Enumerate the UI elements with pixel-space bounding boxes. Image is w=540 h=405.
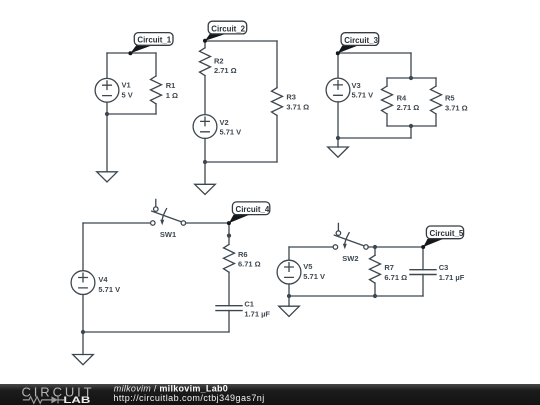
svg-text:V5: V5: [303, 262, 312, 271]
resistor R7: [370, 255, 381, 283]
wire circuit5 top left: [289, 246, 333, 248]
node parallel top junction: [409, 76, 413, 80]
node Circuit_4 flag: [227, 215, 250, 226]
resistor R1: [151, 76, 162, 104]
label R2 value: [214, 56, 237, 75]
label C3 value: [439, 263, 465, 282]
label Circuit_1: [134, 33, 173, 46]
voltage source V4: [71, 271, 95, 295]
resistor R5: [431, 86, 442, 114]
label R7 value: [384, 263, 407, 282]
wire V4 bottom lead: [82, 295, 84, 333]
wire parallel bottom: [387, 125, 436, 127]
svg-text:R2: R2: [214, 56, 224, 65]
wire circuit3 ground stub: [337, 138, 339, 147]
node circuit5 bottom junction: [287, 294, 291, 298]
wire circuit3 bottom: [338, 137, 411, 139]
resistor R4: [382, 86, 393, 114]
wire R7 top lead: [374, 247, 376, 255]
wire circuit4 bottom: [83, 331, 229, 333]
svg-text:LAB: LAB: [63, 395, 90, 405]
node circuit1 bottom junction: [105, 112, 109, 116]
ground GND3: [328, 147, 349, 157]
label V4 value: [98, 275, 120, 294]
wire V3 bottom lead: [337, 102, 339, 138]
svg-text:R6: R6: [238, 250, 248, 259]
wire circuit2 ground stub: [204, 162, 206, 184]
svg-text:Circuit_3: Circuit_3: [344, 36, 378, 45]
resistor R2: [200, 48, 211, 76]
svg-text:R7: R7: [384, 263, 394, 272]
ground GND4: [73, 355, 94, 365]
label Circuit_5: [426, 226, 463, 239]
svg-text:5.71 V: 5.71 V: [98, 285, 120, 294]
wire R3 bottom lead: [276, 116, 278, 163]
node Circuit_5 flag: [421, 239, 443, 249]
voltage source V1: [95, 78, 119, 102]
wire circuit4 top left: [83, 222, 151, 224]
label V1 value: [122, 80, 133, 99]
wire V3 top lead: [337, 53, 339, 78]
wire R4 top lead: [386, 78, 388, 86]
svg-text:V1: V1: [122, 80, 131, 89]
wire capacitor C3 top lead: [422, 247, 424, 270]
node circuit2 bottom junction: [203, 160, 207, 164]
svg-text:R4: R4: [397, 93, 407, 102]
wire V5 bottom lead: [288, 284, 290, 296]
wire circuit2 top: [205, 40, 277, 42]
label R5 value: [445, 94, 468, 113]
node Circuit_2 flag: [203, 34, 226, 43]
wire R6 to capacitor C1: [228, 272, 230, 305]
wire capacitor C3 bottom lead: [422, 274, 424, 296]
svg-text:3.71 Ω: 3.71 Ω: [445, 103, 468, 112]
node R7 top junction: [373, 245, 377, 249]
node circuit3 bottom junction: [336, 136, 340, 140]
svg-text:5.71 V: 5.71 V: [352, 91, 374, 100]
node R6 top: [227, 234, 231, 238]
logo resistor-diode line: [23, 396, 64, 403]
node Circuit_1 flag: [128, 45, 152, 55]
wire R7 bottom lead: [374, 283, 376, 296]
svg-text:Circuit_2: Circuit_2: [211, 24, 245, 33]
svg-text:3.71 Ω: 3.71 Ω: [286, 103, 309, 112]
wire circuit3 top: [338, 52, 411, 54]
voltage source V5: [277, 260, 301, 284]
wire circuit1 top: [107, 52, 156, 54]
svg-text:milkovim / milkovim_Lab0: milkovim / milkovim_Lab0: [114, 384, 228, 394]
svg-text:1.71 µF: 1.71 µF: [244, 310, 270, 319]
svg-text:V3: V3: [352, 81, 361, 90]
node parallel bottom junction: [409, 124, 413, 128]
svg-text:Circuit_5: Circuit_5: [430, 229, 464, 238]
wire V2 bottom lead: [204, 138, 206, 162]
svg-text:SW1: SW1: [160, 230, 176, 239]
footer bar: [0, 384, 540, 405]
capacitor C3: [410, 270, 436, 275]
wire circuit2 bottom: [205, 161, 277, 163]
svg-text:R3: R3: [286, 93, 296, 102]
voltage source V2: [193, 115, 217, 139]
label R4 value: [397, 93, 420, 112]
node R7 bottom junction: [373, 294, 377, 298]
wire circuit4 ground stub: [82, 332, 84, 355]
svg-text:R5: R5: [445, 94, 455, 103]
wire parallel top: [387, 77, 436, 79]
ground GND2: [195, 184, 216, 194]
resistor R6: [224, 244, 235, 272]
svg-text:6.71 Ω: 6.71 Ω: [238, 260, 261, 269]
voltage source V3: [326, 78, 350, 102]
ground GND5: [279, 306, 300, 316]
wire node to R6: [228, 223, 230, 244]
svg-text:5 V: 5 V: [122, 90, 133, 99]
label R1 value: [166, 81, 178, 100]
wire V1 top lead: [106, 53, 108, 78]
svg-text:5.71 V: 5.71 V: [220, 128, 242, 137]
capacitor C1: [216, 306, 242, 311]
label Circuit_2: [208, 21, 247, 34]
svg-text:6.71 Ω: 6.71 Ω: [384, 273, 407, 282]
wire V5 top lead: [288, 247, 290, 260]
wire R3 top lead: [276, 41, 278, 88]
wire V1 bottom lead: [106, 102, 108, 114]
wire R1 bottom lead: [155, 104, 157, 114]
svg-text:http://circuitlab.com/ctbj349g: http://circuitlab.com/ctbj349gas7nj: [113, 393, 264, 403]
label Circuit_4: [232, 202, 269, 215]
resistor R3: [272, 88, 283, 116]
label V5 value: [303, 262, 325, 281]
switch SW2: [333, 223, 368, 249]
wire circuit5 bottom: [289, 295, 423, 297]
wire R2 top lead: [204, 41, 206, 48]
svg-text:SW2: SW2: [342, 254, 358, 263]
svg-text:V2: V2: [220, 118, 229, 127]
svg-text:5.71 V: 5.71 V: [303, 272, 325, 281]
node circuit4 bottom junction: [81, 330, 85, 334]
svg-text:V4: V4: [98, 275, 108, 284]
wire R5 top lead: [435, 78, 437, 86]
label C1 value: [244, 300, 270, 319]
svg-text:C3: C3: [439, 263, 449, 272]
svg-text:2.71 Ω: 2.71 Ω: [214, 66, 237, 75]
svg-text:2.71 Ω: 2.71 Ω: [397, 103, 420, 112]
wire parallel center drop: [410, 126, 412, 138]
svg-text:Circuit_4: Circuit_4: [236, 205, 270, 214]
svg-text:Circuit_1: Circuit_1: [137, 36, 171, 45]
wire R2 to V2: [204, 76, 206, 115]
wire R1 top lead: [155, 53, 157, 76]
label R3 value: [286, 93, 309, 112]
wire circuit1 ground stub: [106, 114, 108, 172]
wire circuit1 bottom: [107, 113, 156, 115]
ground GND1: [97, 172, 118, 182]
wire SW2 to capacitor C3: [368, 246, 423, 248]
svg-text:R1: R1: [166, 81, 176, 90]
wire SW1 to node: [186, 222, 230, 224]
svg-text:1.71 µF: 1.71 µF: [439, 273, 465, 282]
wire capacitor C1 bottom lead: [228, 311, 230, 333]
wire R5 bottom lead: [435, 114, 437, 126]
label R6 value: [238, 250, 261, 269]
svg-text:1 Ω: 1 Ω: [166, 91, 178, 100]
label Circuit_3: [341, 33, 379, 46]
wire circuit5 ground stub: [288, 296, 290, 306]
svg-text:C1: C1: [244, 300, 254, 309]
label V3 value: [352, 81, 374, 100]
wire parallel right drop: [410, 53, 412, 78]
switch SW1: [151, 199, 186, 225]
wire R4 bottom lead: [386, 114, 388, 126]
label V2 value: [220, 118, 242, 137]
wire V4 top lead: [82, 223, 84, 271]
node Circuit_3 flag: [336, 45, 359, 55]
